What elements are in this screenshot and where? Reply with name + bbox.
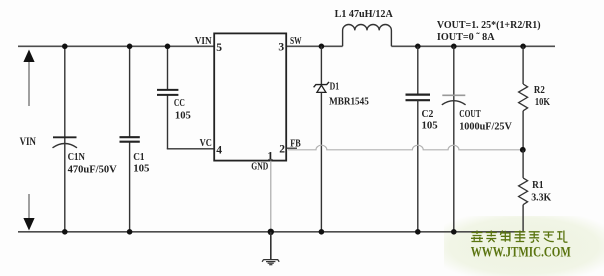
wire D1 column upper bbox=[320, 46, 322, 84]
pin 3 bbox=[278, 41, 284, 53]
wire C1 column lower bbox=[129, 142, 131, 232]
svg-text:105: 105 bbox=[422, 120, 439, 132]
pin SW label bbox=[290, 35, 302, 47]
wire D1 column lower bbox=[320, 92, 322, 231]
wire CC column lower bbox=[167, 95, 169, 149]
IOUT label bbox=[437, 31, 495, 43]
svg-text:10K: 10K bbox=[535, 96, 550, 108]
C1 value label bbox=[133, 151, 150, 175]
svg-text:VC: VC bbox=[200, 137, 212, 149]
wire CC column upper bbox=[167, 46, 169, 90]
svg-text:5: 5 bbox=[216, 42, 222, 54]
VIN down arrow bbox=[23, 194, 34, 231]
node FB / R divider bbox=[520, 147, 526, 153]
C2 value label bbox=[422, 108, 439, 132]
node C2 bottom bbox=[415, 229, 421, 235]
wire R2 lower lead bbox=[522, 111, 524, 150]
svg-text:C2: C2 bbox=[422, 108, 434, 120]
svg-text:470uF/50V: 470uF/50V bbox=[68, 163, 117, 175]
node SW/D1 top bbox=[319, 44, 325, 50]
pin GND label bbox=[251, 161, 268, 173]
svg-text:COUT: COUT bbox=[459, 108, 481, 120]
wire VC to regulator bbox=[167, 148, 214, 150]
svg-text:105: 105 bbox=[133, 163, 150, 175]
svg-text:WWW.JTMIC.COM: WWW.JTMIC.COM bbox=[471, 245, 571, 261]
VIN label (input) bbox=[20, 136, 37, 148]
wire C1N column bbox=[64, 46, 66, 232]
node COUT top bbox=[451, 44, 457, 50]
wire COUT column bbox=[453, 46, 455, 232]
VOUT formula label bbox=[437, 19, 541, 31]
wire R1 lower lead bbox=[522, 205, 524, 232]
resistor R2 bbox=[519, 84, 528, 111]
svg-text:MBR1545: MBR1545 bbox=[329, 95, 369, 107]
diode D1 (schottky) bbox=[314, 82, 329, 93]
svg-text:R2: R2 bbox=[534, 84, 545, 96]
wire C2 column upper bbox=[417, 46, 419, 94]
svg-text:L1 47uH/12A: L1 47uH/12A bbox=[335, 8, 393, 20]
node C2 top bbox=[415, 44, 421, 50]
wire GND pin gray bbox=[270, 161, 272, 231]
R1 value label bbox=[531, 179, 551, 203]
capacitor C2 bbox=[406, 95, 431, 101]
pin 2 bbox=[279, 144, 285, 156]
wire top rail output segment bbox=[391, 45, 555, 47]
wire R2 upper lead bbox=[522, 46, 524, 84]
node C1 bottom bbox=[127, 229, 133, 235]
resistor R1 bbox=[519, 178, 528, 205]
svg-text:3: 3 bbox=[278, 41, 284, 53]
L1 value label bbox=[335, 8, 393, 20]
node GND rail bbox=[268, 229, 274, 235]
svg-text:4: 4 bbox=[216, 144, 222, 156]
svg-text:GND: GND bbox=[251, 161, 268, 173]
CC value label bbox=[174, 97, 191, 122]
svg-text:C1N: C1N bbox=[68, 151, 85, 163]
inductor L1 bbox=[343, 24, 392, 46]
node C1N top bbox=[62, 44, 68, 50]
wire bottom ground rail bbox=[18, 231, 524, 233]
pin 5 bbox=[216, 42, 222, 54]
wire C1 column upper bbox=[129, 46, 131, 137]
node C1N bottom bbox=[62, 229, 68, 235]
svg-text:2: 2 bbox=[279, 144, 285, 156]
svg-text:R1: R1 bbox=[532, 179, 543, 191]
C1N value label bbox=[68, 151, 117, 176]
svg-text:VOUT=1. 25*(1+R2/R1): VOUT=1. 25*(1+R2/R1) bbox=[437, 19, 541, 31]
svg-text:105: 105 bbox=[175, 110, 191, 122]
pin 1 bbox=[267, 149, 273, 163]
wire FB stub from pin 2 bbox=[286, 147, 297, 149]
R2 value label bbox=[534, 84, 550, 108]
VIN up arrow bbox=[23, 50, 34, 107]
capacitor C1N (electrolytic) bbox=[53, 137, 78, 148]
wire R1 upper lead bbox=[522, 150, 524, 178]
ground bbox=[262, 260, 279, 265]
node COUT bottom bbox=[451, 229, 457, 235]
pin 4 bbox=[216, 144, 222, 156]
svg-text:IOUT=0 ˜ 8A: IOUT=0 ˜ 8A bbox=[437, 31, 495, 43]
COUT value label bbox=[459, 108, 512, 133]
capacitor COUT (electrolytic) bbox=[442, 95, 466, 105]
svg-text:1000uF/25V: 1000uF/25V bbox=[459, 121, 512, 133]
node CC top bbox=[165, 44, 171, 50]
D1 label bbox=[329, 81, 369, 108]
pin FB label bbox=[290, 137, 301, 149]
node C1 top bbox=[127, 44, 133, 50]
svg-text:VIN: VIN bbox=[20, 136, 37, 148]
svg-text:CC: CC bbox=[174, 97, 185, 109]
wire top rail SW segment bbox=[286, 45, 343, 47]
watermark chinese characters bbox=[471, 231, 568, 243]
pin VIN label bbox=[195, 35, 212, 47]
pin VC label bbox=[200, 137, 212, 149]
node D1 bottom bbox=[319, 229, 325, 235]
wire FB net gray with hops bbox=[288, 145, 523, 150]
capacitor CC bbox=[157, 90, 178, 95]
svg-text:C1: C1 bbox=[133, 151, 144, 163]
svg-text:D1: D1 bbox=[330, 81, 340, 93]
svg-text:SW: SW bbox=[290, 35, 302, 47]
capacitor C1 bbox=[120, 137, 140, 142]
svg-text:3.3K: 3.3K bbox=[531, 192, 551, 204]
op-amp U1 regulator box bbox=[214, 33, 286, 160]
wire ground stub bbox=[270, 232, 272, 259]
node R2 top bbox=[520, 44, 526, 50]
watermark url text bbox=[471, 245, 571, 261]
svg-text:VIN: VIN bbox=[195, 35, 212, 47]
wire top rail left segment bbox=[18, 45, 214, 47]
wire C2 column lower bbox=[417, 100, 419, 232]
